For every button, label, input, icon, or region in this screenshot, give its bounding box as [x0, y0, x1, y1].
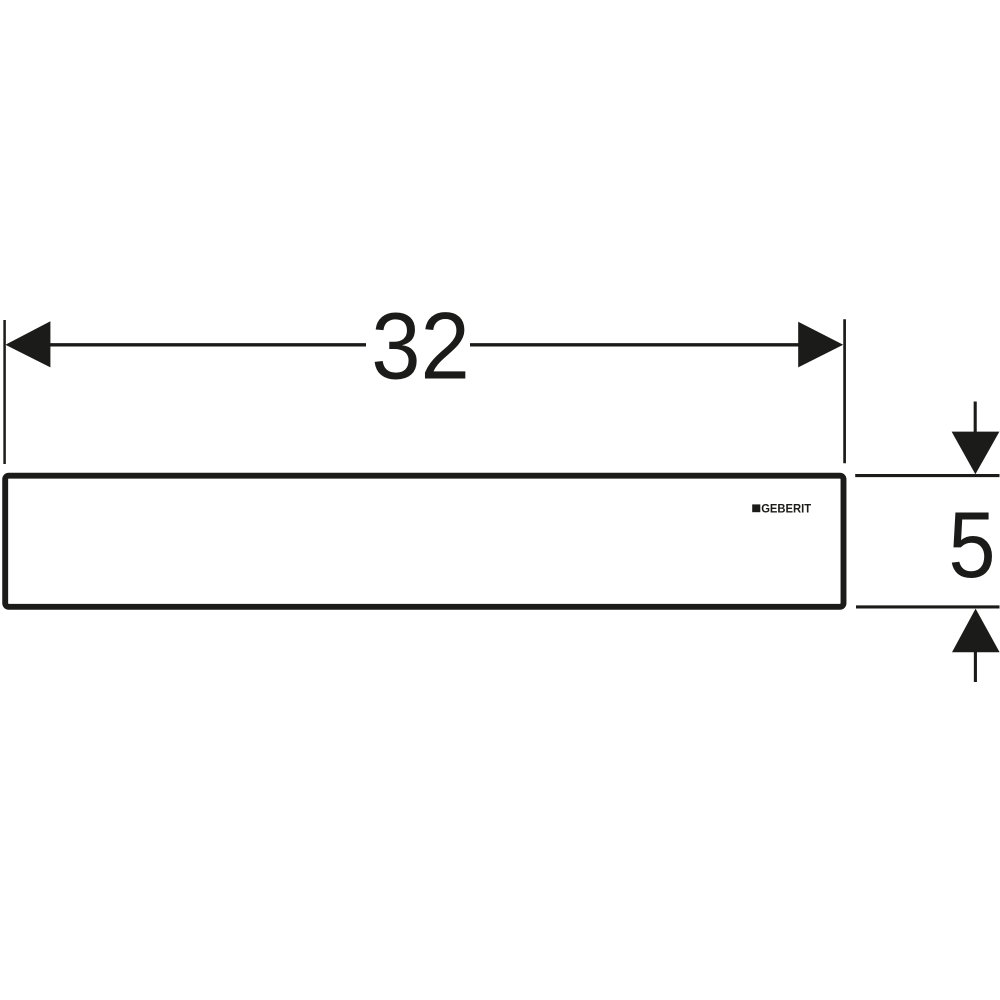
bottom extension line for dimension 5: [856, 605, 1000, 608]
left extension line: [3, 320, 6, 464]
up arrow stem: [974, 651, 977, 682]
down arrowhead: [952, 432, 1000, 475]
svg-text:GEBERIT: GEBERIT: [761, 503, 811, 515]
dimension line 32 left segment: [20, 343, 366, 346]
geberit logo square: [752, 504, 760, 512]
svg-text:5: 5: [948, 492, 995, 597]
top extension line for dimension 5: [855, 474, 999, 477]
dimension line 32 right segment: [470, 343, 820, 346]
up arrowhead: [952, 609, 1000, 653]
svg-text:32: 32: [371, 294, 470, 399]
down arrow stem: [974, 402, 977, 435]
product panel outline: [5, 476, 843, 607]
arrowhead right of dimension 32: [798, 322, 843, 368]
arrowhead left of dimension 32: [5, 321, 50, 367]
right extension line: [843, 319, 846, 463]
